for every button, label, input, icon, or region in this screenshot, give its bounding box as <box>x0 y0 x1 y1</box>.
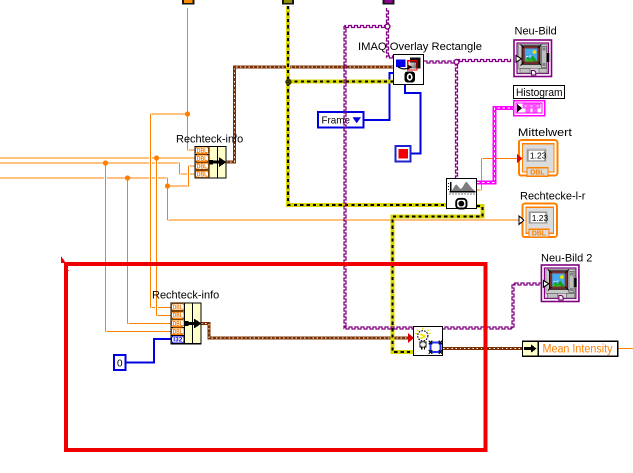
svg-text:Mean Intensity: Mean Intensity <box>543 344 613 356</box>
svg-text:DBL: DBL <box>173 305 184 312</box>
svg-text:DBL: DBL <box>532 231 547 238</box>
svg-text:DBL: DBL <box>197 156 208 163</box>
svg-text:Rechteck-info: Rechteck-info <box>152 290 219 302</box>
svg-text:Histogram: Histogram <box>516 87 563 99</box>
svg-text:IMAQ Overlay Rectangle: IMAQ Overlay Rectangle <box>358 41 482 53</box>
svg-text:DBL: DBL <box>173 313 184 320</box>
svg-text:Rechtecke-l-r: Rechtecke-l-r <box>520 191 586 203</box>
svg-text:DBL: DBL <box>197 164 208 171</box>
svg-text:0: 0 <box>117 359 123 370</box>
svg-text:Neu-Bild 2: Neu-Bild 2 <box>541 253 592 265</box>
svg-text:DBL: DBL <box>173 321 184 328</box>
svg-text:I32: I32 <box>173 337 182 344</box>
svg-text:1.23: 1.23 <box>530 151 547 161</box>
svg-text:DBL: DBL <box>197 148 208 155</box>
svg-text:1.23: 1.23 <box>532 213 549 223</box>
svg-text:DBL: DBL <box>173 329 184 336</box>
svg-text:DBL: DBL <box>197 172 208 179</box>
svg-text:Rechteck-info: Rechteck-info <box>176 134 243 146</box>
svg-text:Neu-Bild: Neu-Bild <box>515 26 557 38</box>
svg-text:Mittelwert: Mittelwert <box>518 127 572 139</box>
svg-text:DBL: DBL <box>530 170 545 177</box>
